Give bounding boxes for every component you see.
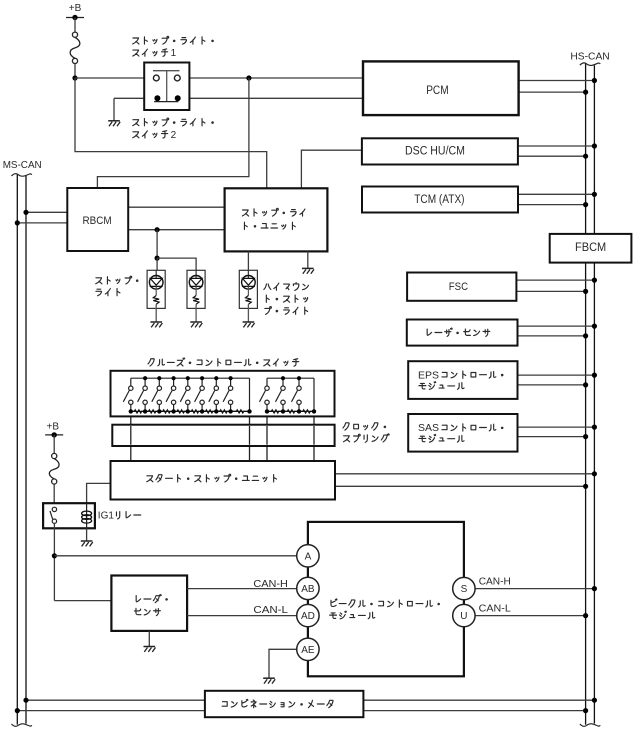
svg-text:1: 1 [171, 48, 177, 59]
svg-text:DSC HU/CM: DSC HU/CM [405, 146, 465, 158]
svg-text:U: U [460, 611, 467, 622]
svg-text:TCM (ATX): TCM (ATX) [414, 194, 464, 206]
svg-text:CAN-H: CAN-H [479, 576, 511, 588]
svg-text:CAN-L: CAN-L [479, 603, 511, 615]
svg-text:HS-CAN: HS-CAN [570, 51, 609, 63]
svg-text:PCM: PCM [426, 85, 448, 97]
svg-text:FBCM: FBCM [575, 242, 606, 254]
svg-text:IG1: IG1 [98, 511, 115, 522]
svg-text:CAN-H: CAN-H [253, 578, 288, 590]
svg-text:MS-CAN: MS-CAN [3, 159, 42, 171]
svg-text:+B: +B [69, 3, 82, 14]
svg-text:SAS: SAS [418, 423, 439, 434]
svg-text:CAN-L: CAN-L [253, 604, 288, 616]
svg-text:S: S [461, 584, 468, 595]
svg-text:A: A [305, 551, 312, 562]
svg-text:AB: AB [301, 584, 315, 595]
svg-text:EPS: EPS [418, 370, 439, 381]
svg-text:AE: AE [301, 645, 315, 656]
svg-text:AD: AD [301, 611, 315, 622]
svg-text:RBCM: RBCM [83, 215, 112, 227]
svg-text:+B: +B [47, 422, 60, 433]
svg-text:2: 2 [171, 130, 177, 141]
svg-text:FSC: FSC [449, 281, 468, 293]
